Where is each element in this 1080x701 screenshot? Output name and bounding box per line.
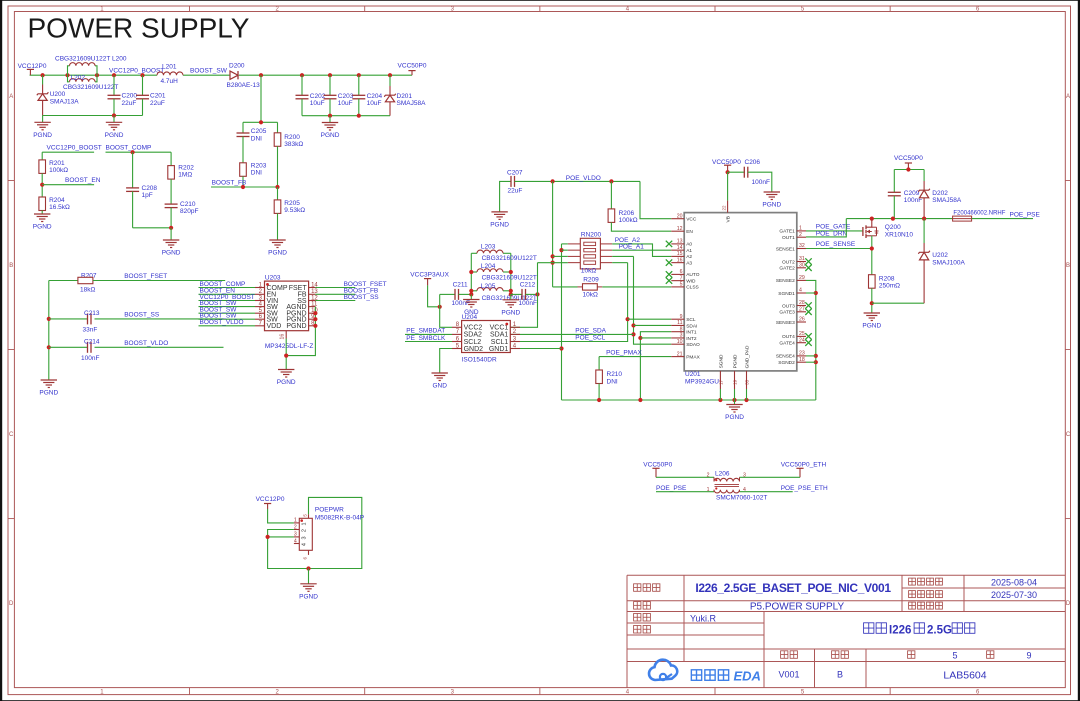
svg-text:EN: EN <box>686 229 693 235</box>
svg-text:VCC3P3AUX: VCC3P3AUX <box>410 272 449 279</box>
svg-text:PGND: PGND <box>105 132 124 139</box>
svg-text:I226: I226 <box>889 624 911 636</box>
svg-text:PGND: PGND <box>733 354 739 368</box>
svg-text:VCC12P0_BOOST: VCC12P0_BOOST <box>109 68 164 75</box>
svg-text:13: 13 <box>677 239 683 245</box>
svg-text:Yuki.R: Yuki.R <box>690 613 717 623</box>
svg-text:22uF: 22uF <box>508 188 523 195</box>
svg-text:U200: U200 <box>50 91 66 98</box>
svg-text:D: D <box>9 601 14 607</box>
svg-text:7: 7 <box>680 275 683 281</box>
svg-text:PGND: PGND <box>33 132 52 139</box>
svg-text:OUT1: OUT1 <box>782 235 795 241</box>
svg-text:POWER SUPPLY: POWER SUPPLY <box>28 13 250 44</box>
svg-text:I226_2.5GE_BASET_POE_NIC_V001: I226_2.5GE_BASET_POE_NIC_V001 <box>695 581 891 595</box>
svg-text:D: D <box>1066 601 1071 607</box>
svg-text:BOOST_SS: BOOST_SS <box>344 294 380 301</box>
svg-text:POE_PSE: POE_PSE <box>656 485 687 492</box>
svg-text:EDA: EDA <box>734 669 761 684</box>
svg-text:M5082RK-B-04P: M5082RK-B-04P <box>315 515 364 522</box>
svg-text:VCC12P0: VCC12P0 <box>18 63 47 70</box>
svg-text:C205: C205 <box>251 128 267 135</box>
svg-text:L206: L206 <box>715 470 730 477</box>
svg-text:21: 21 <box>677 351 683 357</box>
svg-text:22: 22 <box>722 205 727 211</box>
svg-text:A1: A1 <box>686 248 692 254</box>
svg-text:POE_SENSE: POE_SENSE <box>816 241 856 248</box>
svg-text:11: 11 <box>677 320 682 326</box>
svg-text:PE_SMBCLK: PE_SMBCLK <box>406 335 446 342</box>
svg-text:250mΩ: 250mΩ <box>879 283 900 290</box>
svg-text:2: 2 <box>302 529 308 532</box>
svg-text:GND1: GND1 <box>489 346 509 353</box>
svg-text:C: C <box>9 432 14 438</box>
svg-text:U202: U202 <box>932 252 948 259</box>
svg-text:SMAJ13A: SMAJ13A <box>50 98 80 105</box>
svg-text:2025-07-30: 2025-07-30 <box>991 590 1037 600</box>
svg-text:17: 17 <box>718 379 723 385</box>
svg-text:VCC50P0: VCC50P0 <box>894 155 923 162</box>
svg-text:4.7uH: 4.7uH <box>161 78 179 85</box>
svg-text:PGND: PGND <box>33 224 52 231</box>
svg-text:VDD: VDD <box>267 323 282 330</box>
svg-text:22uF: 22uF <box>150 100 165 107</box>
svg-text:A: A <box>1066 94 1070 100</box>
svg-text:28: 28 <box>799 300 805 306</box>
svg-text:V001: V001 <box>778 670 799 680</box>
svg-text:U204: U204 <box>462 314 478 321</box>
svg-text:B: B <box>837 670 843 680</box>
svg-text:3: 3 <box>294 532 297 538</box>
svg-text:CLSS: CLSS <box>686 285 699 291</box>
svg-text:PGND: PGND <box>39 390 58 397</box>
svg-text:1: 1 <box>799 226 802 232</box>
svg-text:PMAX: PMAX <box>686 354 700 360</box>
svg-text:31: 31 <box>799 256 805 262</box>
svg-text:3: 3 <box>302 536 308 539</box>
svg-text:R201: R201 <box>49 160 65 167</box>
svg-text:ISO1540DR: ISO1540DR <box>462 356 497 363</box>
svg-text:18kΩ: 18kΩ <box>80 287 95 294</box>
svg-text:SCL1: SCL1 <box>491 339 509 346</box>
svg-text:GATE3: GATE3 <box>779 310 795 316</box>
svg-text:2: 2 <box>294 524 297 530</box>
svg-text:R200: R200 <box>284 134 300 141</box>
svg-text:4: 4 <box>799 288 802 294</box>
svg-text:SMAJ58A: SMAJ58A <box>932 197 962 204</box>
svg-text:30: 30 <box>799 263 805 269</box>
svg-text:INT1: INT1 <box>686 330 697 336</box>
svg-text:16.5kΩ: 16.5kΩ <box>49 204 70 211</box>
svg-text:VCC: VCC <box>686 217 697 223</box>
svg-text:C: C <box>1066 432 1071 438</box>
svg-text:SDA2: SDA2 <box>464 332 482 339</box>
svg-text:5: 5 <box>952 651 957 661</box>
svg-text:SENSE2: SENSE2 <box>776 278 795 284</box>
svg-text:12: 12 <box>677 226 683 232</box>
svg-text:33nF: 33nF <box>83 327 98 334</box>
svg-text:SGND2: SGND2 <box>778 360 795 366</box>
svg-text:2: 2 <box>707 473 710 479</box>
svg-text:820pF: 820pF <box>180 208 198 215</box>
svg-text:U201: U201 <box>685 371 701 378</box>
svg-text:10uF: 10uF <box>310 100 325 107</box>
svg-text:R204: R204 <box>49 197 65 204</box>
svg-text:19: 19 <box>733 379 738 385</box>
svg-text:BOOST_VLDO: BOOST_VLDO <box>124 340 168 347</box>
svg-text:L204: L204 <box>481 263 496 270</box>
svg-text:BOOST_FSET: BOOST_FSET <box>124 273 167 280</box>
svg-text:Q200: Q200 <box>885 224 901 231</box>
svg-text:BOOST_SS: BOOST_SS <box>124 311 160 318</box>
svg-text:SENSE1: SENSE1 <box>776 246 795 252</box>
svg-text:32: 32 <box>799 243 805 249</box>
svg-text:OUT3: OUT3 <box>782 303 795 309</box>
svg-text:SCL: SCL <box>686 317 696 323</box>
svg-text:SDAO: SDAO <box>686 342 700 348</box>
svg-text:3: 3 <box>680 333 683 339</box>
svg-text:DNI: DNI <box>251 135 262 142</box>
svg-text:OUT2: OUT2 <box>782 259 795 265</box>
svg-text:BOOST_VLDO: BOOST_VLDO <box>200 319 244 326</box>
svg-text:VCC12P0: VCC12P0 <box>256 496 285 503</box>
svg-text:C212: C212 <box>520 281 536 288</box>
svg-text:4: 4 <box>294 538 297 544</box>
svg-text:C210: C210 <box>180 201 196 208</box>
svg-text:GATE4: GATE4 <box>779 341 795 347</box>
svg-text:C204: C204 <box>367 93 383 100</box>
svg-text:VCC50P0: VCC50P0 <box>643 462 672 469</box>
svg-text:PGND: PGND <box>162 250 181 257</box>
svg-text:VCC12P0_BOOST: VCC12P0_BOOST <box>47 145 102 152</box>
svg-text:BOOST_FB: BOOST_FB <box>212 180 247 187</box>
svg-text:14: 14 <box>677 245 683 251</box>
svg-text:9: 9 <box>680 314 683 320</box>
svg-text:R208: R208 <box>879 275 895 282</box>
svg-text:D201: D201 <box>397 93 413 100</box>
svg-text:VB: VB <box>726 216 732 222</box>
svg-text:10uF: 10uF <box>367 100 382 107</box>
svg-text:B: B <box>9 263 13 269</box>
svg-text:A0: A0 <box>686 242 692 248</box>
svg-text:CBG321609U122T L200: CBG321609U122T L200 <box>55 56 127 63</box>
svg-text:P5.POWER SUPPLY: P5.POWER SUPPLY <box>750 602 845 613</box>
svg-text:VCC1: VCC1 <box>490 325 509 332</box>
svg-text:PGND: PGND <box>501 309 520 316</box>
svg-text:6: 6 <box>680 269 683 275</box>
svg-text:R202: R202 <box>178 164 194 171</box>
svg-text:POEPWR: POEPWR <box>315 507 344 514</box>
svg-text:SGND1: SGND1 <box>778 291 795 297</box>
svg-text:VCC50P0: VCC50P0 <box>398 62 427 69</box>
svg-text:DNI: DNI <box>607 378 618 385</box>
svg-text:1: 1 <box>707 487 710 493</box>
svg-text:R206: R206 <box>619 210 635 217</box>
svg-text:GND: GND <box>432 383 447 390</box>
svg-text:9: 9 <box>1026 651 1031 661</box>
svg-text:POE_VLDO: POE_VLDO <box>566 175 601 182</box>
svg-text:POE_SDA: POE_SDA <box>575 328 606 335</box>
svg-text:GATE1: GATE1 <box>779 229 795 235</box>
svg-text:VCC50P0_ETH: VCC50P0_ETH <box>781 462 827 469</box>
svg-text:PGND: PGND <box>762 202 781 209</box>
svg-text:PGND: PGND <box>299 593 318 600</box>
svg-text:U203: U203 <box>265 275 281 282</box>
svg-text:9.53kΩ: 9.53kΩ <box>284 207 305 214</box>
svg-text:C201: C201 <box>150 93 166 100</box>
svg-text:D200: D200 <box>229 62 245 69</box>
svg-text:29: 29 <box>799 275 805 281</box>
svg-text:MP3425DL-LF-Z: MP3425DL-LF-Z <box>265 343 313 350</box>
svg-text:D202: D202 <box>932 190 948 197</box>
svg-text:WID: WID <box>686 278 696 284</box>
svg-text:3: 3 <box>743 473 746 479</box>
svg-text:GATE2: GATE2 <box>779 266 795 272</box>
svg-text:1pF: 1pF <box>142 192 153 199</box>
svg-text:10: 10 <box>677 339 683 345</box>
svg-text:OUT4: OUT4 <box>782 334 795 340</box>
svg-text:C214: C214 <box>84 339 100 346</box>
svg-text:B280AE-13: B280AE-13 <box>227 82 261 89</box>
svg-text:POE_PSE: POE_PSE <box>1010 211 1041 218</box>
svg-text:PGND: PGND <box>268 250 287 257</box>
svg-text:POE_PMAX: POE_PMAX <box>606 349 642 356</box>
svg-text:DNI: DNI <box>251 170 262 177</box>
svg-text:15: 15 <box>677 251 683 257</box>
svg-text:A3: A3 <box>686 260 692 266</box>
svg-text:100nF: 100nF <box>452 300 470 307</box>
svg-text:VCC50P0: VCC50P0 <box>712 159 741 166</box>
svg-text:10kΩ: 10kΩ <box>581 267 596 274</box>
svg-text:PE_SMBDAT: PE_SMBDAT <box>406 328 445 335</box>
svg-text:LAB5604: LAB5604 <box>943 670 986 682</box>
svg-text:PGND: PGND <box>490 221 509 228</box>
svg-text:C203: C203 <box>338 93 354 100</box>
svg-text:1: 1 <box>302 522 308 525</box>
svg-text:100kΩ: 100kΩ <box>619 217 638 224</box>
svg-text:SENSE4: SENSE4 <box>776 354 795 360</box>
svg-text:10uF: 10uF <box>338 100 353 107</box>
svg-text:BOOST_SW: BOOST_SW <box>190 68 228 75</box>
svg-text:100nF: 100nF <box>81 355 99 362</box>
svg-text:27: 27 <box>799 307 805 313</box>
svg-text:2: 2 <box>799 232 802 238</box>
svg-text:18: 18 <box>799 357 805 363</box>
svg-text:C213: C213 <box>84 310 100 317</box>
svg-text:L203: L203 <box>481 244 496 251</box>
svg-text:PGND: PGND <box>725 414 744 421</box>
svg-text:C208: C208 <box>142 185 158 192</box>
svg-text:SCL2: SCL2 <box>464 339 482 346</box>
svg-text:1MΩ: 1MΩ <box>178 172 192 179</box>
svg-text:VCC2: VCC2 <box>464 325 483 332</box>
svg-text:C209: C209 <box>904 190 920 197</box>
svg-text:BOOST_COMP: BOOST_COMP <box>106 145 152 152</box>
svg-text:SDA1: SDA1 <box>490 332 508 339</box>
svg-text:GND_PAD: GND_PAD <box>745 345 751 368</box>
svg-text:C211: C211 <box>453 281 468 288</box>
svg-text:16: 16 <box>280 334 286 340</box>
svg-text:L202: L202 <box>71 74 86 81</box>
svg-text:POE_A1: POE_A1 <box>619 244 645 251</box>
svg-text:PGND: PGND <box>277 379 296 386</box>
svg-text:C202: C202 <box>310 93 326 100</box>
svg-text:MP3924GU: MP3924GU <box>685 378 719 385</box>
svg-text:SMAJ58A: SMAJ58A <box>397 100 427 107</box>
svg-text:INT2: INT2 <box>686 336 697 342</box>
svg-text:POE_PSE_ETH: POE_PSE_ETH <box>781 485 828 492</box>
svg-text:L201: L201 <box>162 64 177 71</box>
svg-text:CBG321609U122T: CBG321609U122T <box>482 255 537 262</box>
svg-text:CBG321609U122T: CBG321609U122T <box>63 84 118 91</box>
svg-text:20: 20 <box>677 213 683 219</box>
svg-text:4: 4 <box>743 487 746 493</box>
svg-text:22uF: 22uF <box>122 100 137 107</box>
svg-text:1: 1 <box>294 518 297 524</box>
svg-text:C200: C200 <box>122 93 138 100</box>
svg-text:383kΩ: 383kΩ <box>284 141 303 148</box>
svg-text:POE_SCL: POE_SCL <box>575 335 605 342</box>
svg-text:33: 33 <box>745 379 750 385</box>
svg-text:100kΩ: 100kΩ <box>49 167 68 174</box>
svg-text:B: B <box>1066 263 1070 269</box>
svg-text:A2: A2 <box>686 254 692 260</box>
svg-text:C207: C207 <box>507 169 523 176</box>
svg-text:PGND: PGND <box>862 323 881 330</box>
svg-text:A: A <box>9 94 13 100</box>
svg-text:2025-08-04: 2025-08-04 <box>991 578 1037 588</box>
svg-text:SMAJ100A: SMAJ100A <box>932 259 965 266</box>
svg-text:R203: R203 <box>251 162 267 169</box>
svg-text:10kΩ: 10kΩ <box>583 291 598 298</box>
svg-text:PGND: PGND <box>321 132 340 139</box>
svg-text:100nF: 100nF <box>519 300 537 307</box>
svg-text:R210: R210 <box>607 371 623 378</box>
svg-text:23: 23 <box>799 351 805 357</box>
svg-text:26: 26 <box>799 317 805 323</box>
svg-text:100nF: 100nF <box>752 179 770 186</box>
svg-text:11: 11 <box>311 301 318 307</box>
svg-text:R205: R205 <box>284 200 300 207</box>
svg-text:8: 8 <box>680 326 683 332</box>
svg-text:SDAI: SDAI <box>686 323 697 329</box>
svg-text:SMCM7060-102T: SMCM7060-102T <box>716 495 767 502</box>
svg-text:RN200: RN200 <box>581 232 602 239</box>
svg-text:16: 16 <box>677 257 683 263</box>
svg-text:24: 24 <box>799 337 805 343</box>
svg-text:4: 4 <box>302 543 308 546</box>
svg-text:F200466002.NRHF: F200466002.NRHF <box>953 210 1005 216</box>
svg-text:L205: L205 <box>481 283 496 290</box>
svg-text:GND2: GND2 <box>464 346 484 353</box>
svg-text:C206: C206 <box>745 159 761 166</box>
svg-text:PGND: PGND <box>286 323 306 330</box>
svg-text:XR10N10: XR10N10 <box>885 232 914 239</box>
svg-text:SGND: SGND <box>719 354 725 368</box>
svg-text:2.5G: 2.5G <box>927 624 952 636</box>
svg-text:5: 5 <box>680 282 683 288</box>
svg-text:SENSE3: SENSE3 <box>776 320 795 326</box>
svg-text:R209: R209 <box>583 277 599 284</box>
svg-text:25: 25 <box>799 331 805 337</box>
svg-text:AUTO: AUTO <box>686 272 700 278</box>
svg-text:BOOST_EN: BOOST_EN <box>65 177 101 184</box>
